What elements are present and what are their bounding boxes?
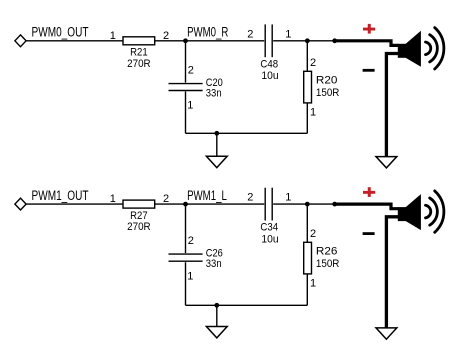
capacitor C20 top plate xyxy=(169,83,203,85)
svg-text:R27: R27 xyxy=(130,210,148,222)
resistor R26 xyxy=(304,242,312,274)
thick wire node to speaker plus terminal xyxy=(335,204,399,209)
thick wire node to speaker plus terminal xyxy=(335,41,399,46)
speaker LS driver body xyxy=(398,44,406,58)
svg-text:1: 1 xyxy=(187,270,193,282)
speaker sound wave arc 1 xyxy=(426,205,431,218)
svg-text:1: 1 xyxy=(285,192,291,204)
wire node down to R20 pin 2 xyxy=(306,41,308,72)
thick wire speaker minus terminal to ground xyxy=(386,217,398,330)
svg-text:1: 1 xyxy=(285,28,291,40)
wire node down to R26 pin 2 xyxy=(306,204,308,242)
svg-text:1: 1 xyxy=(310,107,316,119)
capacitor C26 top plate xyxy=(169,253,203,255)
capacitor C34 left plate xyxy=(264,188,266,221)
speaker LS cone xyxy=(406,31,421,67)
ground rail wire xyxy=(186,132,308,134)
capacitor C34 right plate xyxy=(271,188,273,221)
capacitor C26 bottom plate xyxy=(169,260,203,262)
capacitor C20 bottom plate xyxy=(169,90,203,92)
junction at speaker branch xyxy=(332,38,337,43)
wire node down to C26 pin 2 xyxy=(185,204,187,253)
svg-text:10u: 10u xyxy=(261,70,278,82)
svg-text:150R: 150R xyxy=(316,258,340,270)
speaker sound wave arc 1 xyxy=(426,42,431,55)
svg-text:2: 2 xyxy=(163,193,169,205)
wire input to R27 pin 1 xyxy=(26,203,123,205)
junction at speaker branch xyxy=(332,202,337,207)
svg-text:C34: C34 xyxy=(260,222,278,234)
svg-text:33n: 33n xyxy=(206,88,222,100)
svg-text:1: 1 xyxy=(187,100,193,112)
resistor R20 xyxy=(304,71,312,103)
wire junction to ground symbol xyxy=(216,133,218,157)
wire node to C34 pin 2 xyxy=(186,203,265,205)
wire C48 pin 1 to speaker node xyxy=(273,40,335,42)
svg-text:2: 2 xyxy=(247,192,253,204)
capacitor C48 right plate xyxy=(271,24,273,57)
wire R21 pin 2 to node PWM0_R xyxy=(155,40,186,42)
wire junction to ground symbol xyxy=(216,305,218,327)
svg-text:C48: C48 xyxy=(260,58,278,70)
junction on ground rail xyxy=(214,303,219,308)
svg-text:2: 2 xyxy=(247,28,253,40)
svg-text:PWM0_R: PWM0_R xyxy=(187,25,228,40)
svg-text:2: 2 xyxy=(310,57,316,69)
junction at R26 branch xyxy=(305,202,310,207)
svg-text:R26: R26 xyxy=(316,246,338,258)
input pin PWM0_OUT xyxy=(15,35,26,47)
svg-text:270R: 270R xyxy=(127,221,151,233)
svg-text:150R: 150R xyxy=(316,87,340,99)
speaker sound wave arc 2 xyxy=(430,198,438,225)
speaker sound wave arc 3 xyxy=(435,28,444,69)
svg-text:2: 2 xyxy=(310,228,316,240)
wire node down to C20 pin 2 xyxy=(185,41,187,83)
junction node PWM1_L xyxy=(183,202,188,207)
wire R26 pin 1 down to ground rail xyxy=(306,274,308,305)
wire C34 pin 1 to speaker node xyxy=(273,203,335,205)
ground symbol GND (rail) xyxy=(206,156,227,167)
speaker LS cone xyxy=(406,194,421,230)
speaker sound wave arc 3 xyxy=(435,191,444,232)
junction node PWM0_R xyxy=(183,38,188,43)
svg-text:PWM1_L: PWM1_L xyxy=(187,188,227,203)
ground symbol GND (speaker) xyxy=(376,157,397,168)
svg-text:R20: R20 xyxy=(316,75,338,87)
svg-text:1: 1 xyxy=(110,30,116,42)
capacitor C48 left plate xyxy=(264,24,266,57)
svg-text:R21: R21 xyxy=(130,47,148,59)
svg-text:PWM0_OUT: PWM0_OUT xyxy=(32,25,89,40)
wire C20 pin 1 down to ground rail xyxy=(185,92,187,134)
svg-text:270R: 270R xyxy=(127,58,151,70)
svg-text:2: 2 xyxy=(188,65,194,77)
plus terminal mark xyxy=(363,187,375,197)
speaker LS driver body xyxy=(398,207,406,221)
resistor R21 xyxy=(123,37,155,45)
wire input to R21 pin 1 xyxy=(26,40,123,42)
junction at R20 branch xyxy=(305,38,310,43)
thick wire speaker minus terminal to ground xyxy=(386,54,398,159)
ground symbol GND (speaker) xyxy=(376,328,397,339)
junction on ground rail xyxy=(214,131,219,136)
svg-text:1: 1 xyxy=(310,278,316,290)
svg-text:10u: 10u xyxy=(261,233,278,245)
minus terminal mark xyxy=(363,69,375,72)
plus terminal mark xyxy=(363,24,375,34)
wire R20 pin 1 down to ground rail xyxy=(306,103,308,133)
resistor R27 xyxy=(123,200,155,208)
speaker sound wave arc 2 xyxy=(430,35,438,62)
wire node to C48 pin 2 xyxy=(186,40,265,42)
svg-text:PWM1_OUT: PWM1_OUT xyxy=(32,188,89,203)
wire C26 pin 1 down to ground rail xyxy=(185,262,187,305)
input pin PWM1_OUT xyxy=(15,198,26,210)
svg-text:2: 2 xyxy=(188,235,194,247)
ground symbol GND (rail) xyxy=(206,327,227,338)
svg-text:33n: 33n xyxy=(206,258,222,270)
ground rail wire xyxy=(186,304,308,306)
wire R27 pin 2 to node PWM1_L xyxy=(155,203,186,205)
minus terminal mark xyxy=(363,232,375,235)
svg-text:1: 1 xyxy=(110,193,116,205)
